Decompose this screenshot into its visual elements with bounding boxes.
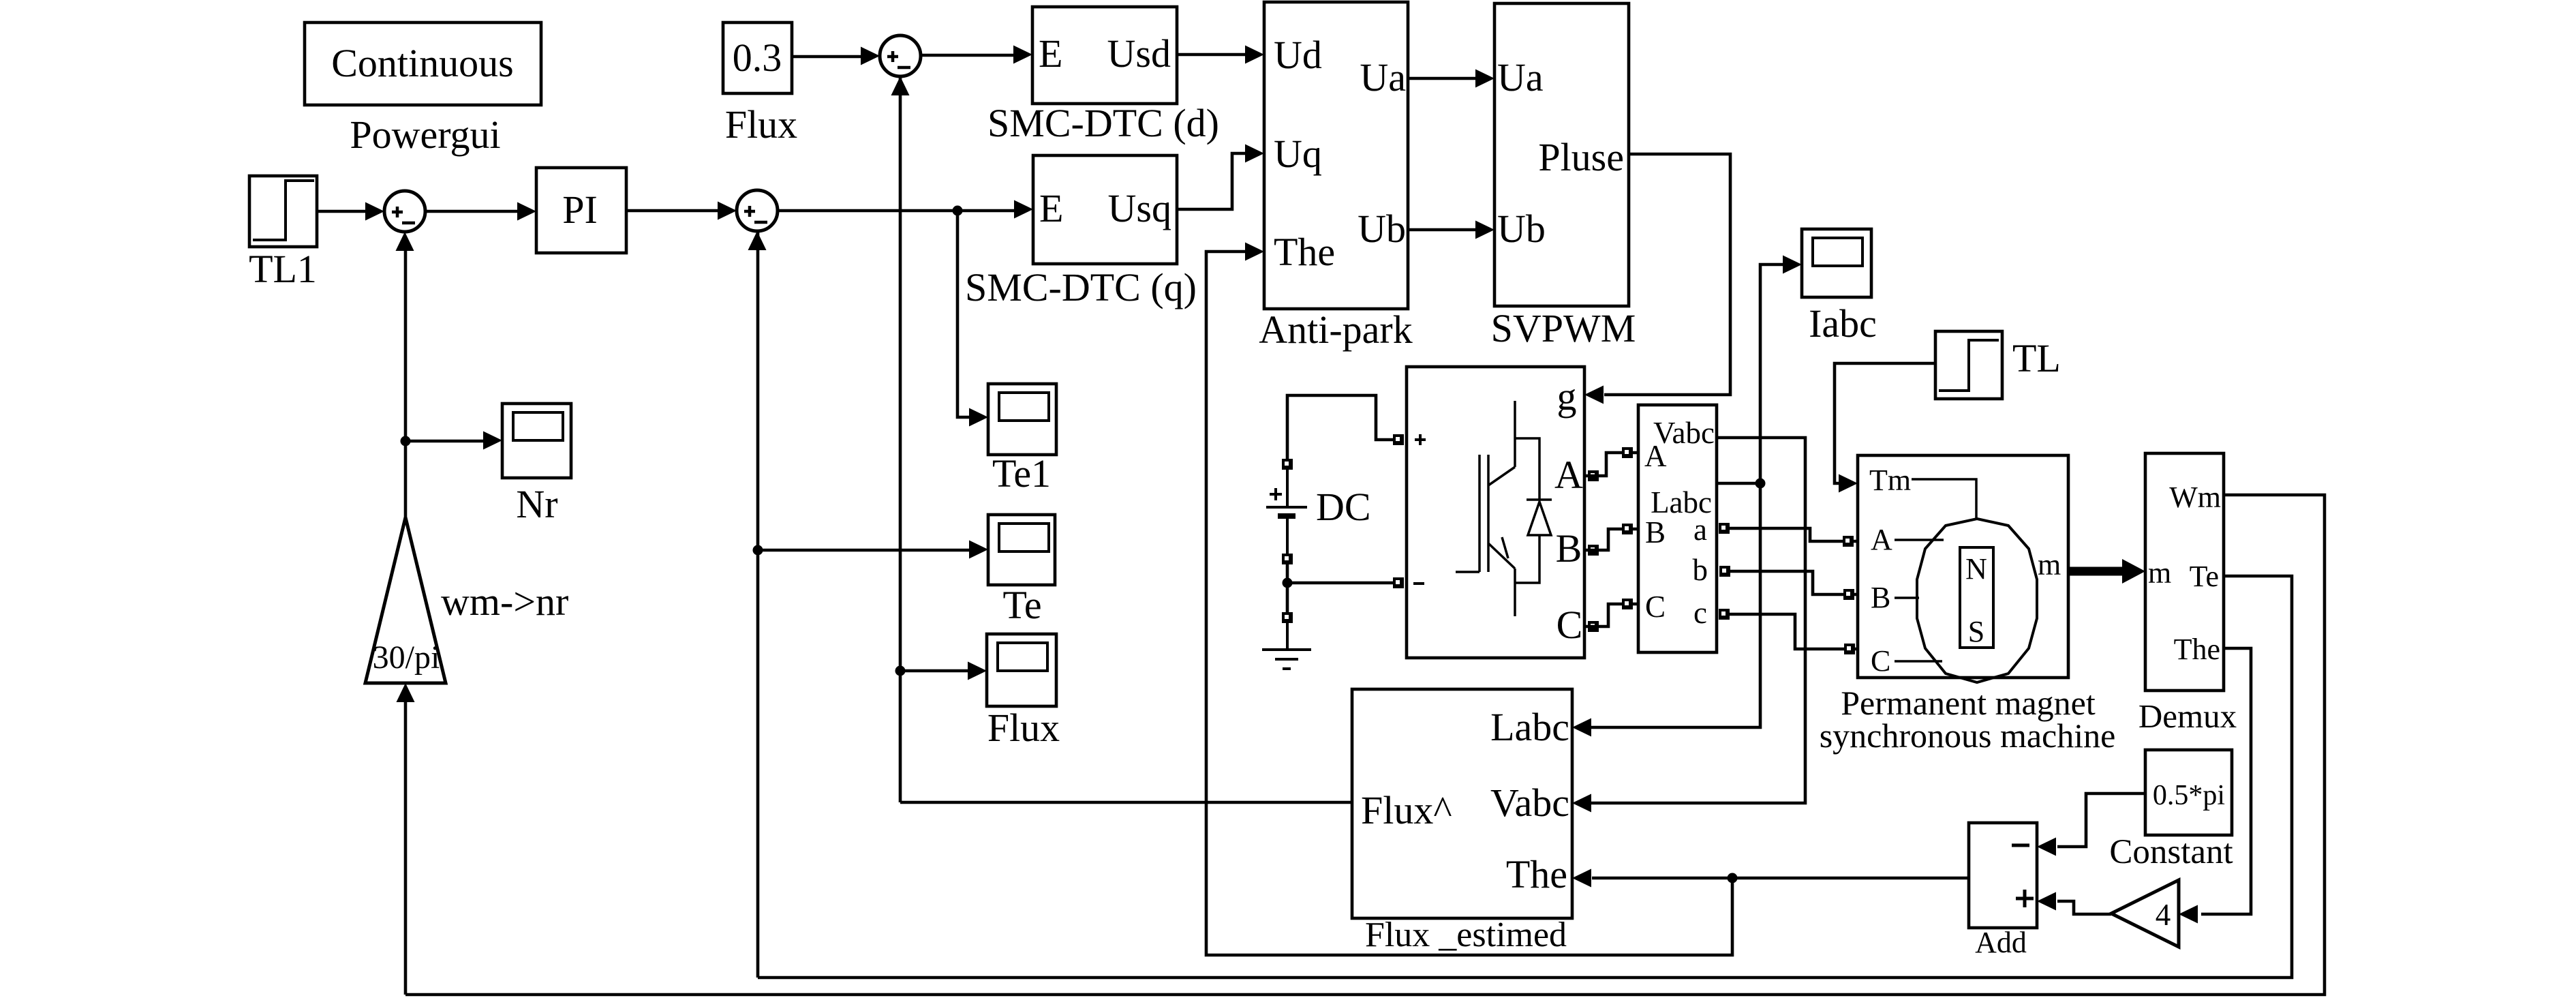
sum junction S3 (flux error +-) <box>880 35 921 76</box>
svg-text:b: b <box>1693 553 1708 587</box>
wire Ub to SVPWM Ub <box>1408 228 1477 232</box>
pad PMSM C in <box>1844 644 1855 654</box>
pad inverter plus <box>1393 434 1404 445</box>
powergui block U_powergui (Continuous) <box>305 22 541 105</box>
constant block 0.3 <box>723 22 792 93</box>
svg-text:Te: Te <box>2190 560 2219 593</box>
svg-text:Add: Add <box>1975 926 2027 959</box>
inverter IGBT and diode icon <box>1515 401 1552 616</box>
svg-text:SVPWM: SVPWM <box>1491 306 1636 350</box>
scope Flux <box>987 634 1056 706</box>
wire Usq to Anti-park Uq <box>1177 153 1246 209</box>
pad inverter B out <box>1588 545 1599 556</box>
wire DC+ to inverter + <box>1287 395 1401 459</box>
pad DC mid <box>1282 554 1293 564</box>
svg-text:DC: DC <box>1316 485 1371 529</box>
wire The routing to Anti-park The <box>1206 252 1732 955</box>
pad measure a out <box>1719 523 1730 534</box>
scope Nr <box>502 404 571 478</box>
svg-text:Ua: Ua <box>1497 55 1544 100</box>
pad PMSM B in <box>1843 589 1854 600</box>
PMSM magnet rectangle N S <box>1960 547 1993 648</box>
svg-text:Vabc: Vabc <box>1490 781 1569 825</box>
svg-text:0.5*pi: 0.5*pi <box>2153 780 2225 811</box>
svg-text:Continuous: Continuous <box>331 41 514 85</box>
subsystem SMC-DTC (d) <box>1032 7 1177 104</box>
svg-text:Ud: Ud <box>1274 33 1322 77</box>
scope Iabc <box>1802 229 1871 297</box>
svg-text:S: S <box>1968 615 1984 648</box>
svg-text:PI: PI <box>562 187 598 232</box>
svg-text:A: A <box>1644 439 1667 473</box>
svg-text:C: C <box>1557 603 1583 647</box>
svg-text:SMC-DTC (d): SMC-DTC (d) <box>987 101 1219 145</box>
step source TL1 <box>249 176 317 247</box>
svg-text:Te1: Te1 <box>992 451 1051 496</box>
wire Vabc output to Flux_estimed Vabc <box>1590 438 1805 803</box>
svg-text:Te: Te <box>1002 583 1041 627</box>
svg-text:Ua: Ua <box>1360 55 1406 100</box>
wire measure c to PMSM C <box>1730 614 1858 649</box>
wire inverter B to measure B <box>1584 529 1638 550</box>
wire branch to scope Nr <box>405 440 485 443</box>
inverter plus sign <box>1415 434 1426 445</box>
wire branch to scope Te <box>758 549 970 552</box>
svg-text:SMC-DTC (q): SMC-DTC (q) <box>965 265 1197 309</box>
gain block wm->nr (30/pi) <box>365 517 446 683</box>
pad measure A in <box>1622 447 1633 458</box>
pad inverter C out <box>1588 621 1599 632</box>
Add minus sign <box>2012 844 2029 847</box>
wire Usd to Anti-park Ud <box>1177 53 1246 57</box>
svg-text:Usq: Usq <box>1108 186 1171 230</box>
svg-text:E: E <box>1039 31 1062 76</box>
svg-text:Constant: Constant <box>2109 833 2233 871</box>
wire Add output to Flux_estimed The with node to The routing <box>1592 877 1969 880</box>
wire S3 to SMC-DTC(d) E <box>921 54 1015 57</box>
pad measure B in <box>1622 524 1633 534</box>
pad inverter A out <box>1588 470 1599 481</box>
wire branch to scope Te1 <box>957 211 970 417</box>
svg-text:synchronous machine: synchronous machine <box>1820 716 2116 755</box>
inverter minus sign <box>1413 582 1424 585</box>
pad inverter minus <box>1393 577 1404 588</box>
wire Demux Te feedback to S2 <box>758 576 2292 978</box>
universal bridge inverter block <box>1407 367 1584 658</box>
svg-text:Nr: Nr <box>516 482 557 526</box>
wire inverter C to measure C <box>1584 604 1638 626</box>
wire Flux^ output to flux feedback line <box>900 801 1352 804</box>
svg-text:The: The <box>2174 633 2220 666</box>
svg-text:a: a <box>1693 513 1707 547</box>
wire gain 4 to Add plus <box>2057 901 2111 914</box>
svg-text:Usd: Usd <box>1107 31 1171 76</box>
svg-text:A: A <box>1554 453 1583 497</box>
pad PMSM A in <box>1843 536 1854 547</box>
wire Demux The to gain 4 <box>2201 648 2251 914</box>
svg-text:Flux^: Flux^ <box>1361 788 1452 832</box>
svg-text:B: B <box>1556 526 1582 571</box>
add block Add <box>1969 823 2037 928</box>
wire Ua to SVPWM Ua <box>1408 77 1477 80</box>
wire TL1 to S1 <box>317 210 367 213</box>
wire Wm feedback into gain <box>404 701 408 995</box>
node Flux branch <box>895 666 906 676</box>
svg-text:Pluse: Pluse <box>1538 135 1624 179</box>
svg-text:c: c <box>1693 596 1707 630</box>
svg-text:B: B <box>1645 515 1666 549</box>
svg-text:Anti-park: Anti-park <box>1259 307 1413 352</box>
svg-text:The: The <box>1506 852 1567 896</box>
wire PI to S2 <box>626 209 719 213</box>
pad measure c out <box>1719 609 1730 620</box>
wire S2 to SMC-DTC(q) E with junction to Te1 <box>778 209 1015 213</box>
wire Demux Wm feedback to gain wm->nr <box>405 495 2325 995</box>
svg-text:m: m <box>2038 548 2061 581</box>
node Te branch <box>753 545 763 556</box>
subsystem Anti-park <box>1264 2 1408 309</box>
wire measure a to PMSM A <box>1730 528 1858 541</box>
wire gain wm-nr output up to S1 with node to Nr <box>404 249 408 517</box>
svg-text:Wm: Wm <box>2169 481 2221 514</box>
node DC minus <box>1283 578 1293 588</box>
battery plus sign <box>1270 488 1282 500</box>
wire Flux^ feedback up to S3 with node to scope Flux <box>899 78 902 802</box>
svg-text:C: C <box>1871 644 1890 678</box>
svg-text:Flux: Flux <box>987 706 1060 750</box>
svg-text:The: The <box>1274 230 1335 274</box>
sum junction S1 (speed error +-) <box>384 191 425 232</box>
constant block 0.5*pi <box>2145 750 2232 835</box>
svg-text:Labc: Labc <box>1490 705 1569 749</box>
node Labc <box>1755 479 1766 489</box>
wire inverter A to measure A <box>1584 453 1638 476</box>
node Nr branch <box>401 436 411 447</box>
step source TL <box>1935 331 2002 399</box>
subsystem Flux_estimed <box>1352 689 1572 918</box>
DC source battery <box>1286 469 1289 554</box>
wire Te feedback up to S2 with node to scope Te <box>756 232 760 978</box>
svg-text:B: B <box>1871 581 1890 614</box>
PMSM B internal wire <box>1895 596 1919 599</box>
demux block Demux <box>2145 453 2224 691</box>
svg-text:m: m <box>2148 556 2171 590</box>
wire S1 to PI <box>425 210 519 213</box>
subsystem SMC-DTC (q) <box>1033 155 1177 264</box>
svg-text:30/pi: 30/pi <box>373 639 440 676</box>
PMSM A internal wire <box>1895 539 1944 541</box>
PMSM Tm internal wire <box>1912 479 1976 518</box>
svg-text:Ub: Ub <box>1358 207 1406 251</box>
wire measure b to PMSM B <box>1730 571 1858 594</box>
svg-text:Flux: Flux <box>725 102 797 147</box>
svg-text:TL1: TL1 <box>249 247 317 291</box>
PI controller block PI <box>536 168 626 253</box>
svg-text:C: C <box>1645 590 1666 624</box>
svg-text:Powergui: Powergui <box>350 112 500 157</box>
svg-text:A: A <box>1871 523 1892 556</box>
wire Labc output with node <box>1717 482 1760 485</box>
wire Labc down to Flux_estimed Labc <box>1590 483 1760 727</box>
scope Te1 <box>988 384 1056 455</box>
wire branch to scope Flux <box>900 669 969 673</box>
svg-text:Flux _estimed: Flux _estimed <box>1365 916 1567 954</box>
svg-text:Ub: Ub <box>1497 207 1546 251</box>
wire TL to PMSM Tm <box>1835 363 1935 483</box>
wire 0.3 to S3 <box>792 55 862 59</box>
node The <box>1728 873 1738 883</box>
pad measure C in <box>1622 599 1633 609</box>
wire Labc up to scope Iabc <box>1760 264 1784 483</box>
svg-text:wm->nr: wm->nr <box>441 579 568 624</box>
svg-text:Uq: Uq <box>1274 132 1322 176</box>
PMSM rotor polygon <box>1917 519 2037 682</box>
pad DC top <box>1282 459 1293 470</box>
scope Te <box>988 515 1055 585</box>
svg-text:E: E <box>1039 186 1063 230</box>
wire SVPWM Pluse to inverter g <box>1604 154 1730 395</box>
wire Constant to Add minus <box>2057 793 2145 847</box>
three-phase VI measurement block <box>1638 405 1717 652</box>
wire DC- to inverter - with ground branch <box>1287 564 1401 612</box>
gain block 4 <box>2111 880 2179 947</box>
bus PMSM m to Demux <box>2068 567 2122 576</box>
permanent magnet synchronous machine block <box>1858 455 2068 678</box>
PMSM C internal wire <box>1895 660 1942 663</box>
svg-text:Iabc: Iabc <box>1809 301 1877 346</box>
sum junction S2 (torque error +-) <box>737 190 778 231</box>
svg-text:Tm: Tm <box>1869 464 1911 497</box>
svg-text:TL: TL <box>2012 336 2061 380</box>
node on S2 output for Te1 branch <box>953 206 963 216</box>
Add plus sign <box>2016 890 2034 907</box>
ground <box>1262 622 1311 669</box>
subsystem SVPWM <box>1494 3 1629 306</box>
pad measure b out <box>1719 566 1730 577</box>
svg-text:N: N <box>1965 552 1987 586</box>
svg-text:0.3: 0.3 <box>733 35 782 80</box>
pad DC bottom <box>1282 612 1293 623</box>
svg-text:4: 4 <box>2156 898 2171 932</box>
svg-text:Demux: Demux <box>2138 697 2237 735</box>
svg-text:g: g <box>1557 374 1577 419</box>
